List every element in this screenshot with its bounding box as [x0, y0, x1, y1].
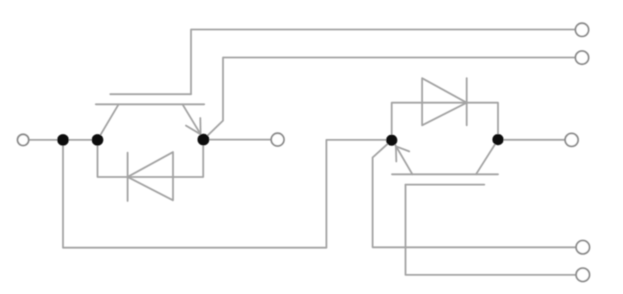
wire: auxiliary emitter E1 up and across to terminal	[203, 58, 575, 140]
IGBT Q1 body bar	[96, 103, 204, 105]
wire: bottom loop from node C1 to node E2	[63, 140, 392, 248]
junction node E1	[198, 134, 210, 146]
terminal: gate G2	[576, 268, 589, 281]
terminal: right collector output	[565, 133, 578, 146]
IGBT Q1 gate bar	[110, 93, 191, 95]
IGBT Q1 emitter arrowhead	[186, 118, 201, 134]
diode D2 cathode bar	[466, 78, 468, 125]
junction node C1	[92, 134, 104, 146]
terminal: auxiliary emitter E1	[575, 51, 588, 64]
diode D1 cathode bar	[127, 153, 129, 201]
wire: left input to node C1	[29, 139, 98, 141]
IGBT Q2 emitter lead	[395, 145, 412, 175]
junction node C2	[492, 134, 503, 145]
diode D2 triangle	[422, 78, 467, 125]
IGBT Q2 gate bar	[406, 184, 485, 186]
terminal: left collector input	[18, 134, 29, 145]
junction node E2	[386, 135, 397, 146]
junction node at left input	[57, 134, 69, 146]
IGBT Q1 emitter lead	[183, 104, 202, 136]
diode D1 triangle	[128, 152, 173, 200]
terminal: auxiliary emitter E2	[576, 241, 589, 254]
wire: emitter E1 to AC output terminal	[203, 139, 271, 141]
terminal: gate G1	[575, 23, 588, 36]
wire: gate G2 lead down and across to terminal	[406, 185, 577, 275]
wire: node C1 down to diode D1	[98, 140, 204, 177]
IGBT Q2 emitter arrowhead	[396, 146, 409, 161]
wire: auxiliary emitter E2 down and across to terminal	[373, 140, 576, 247]
wire: node C2 to right output terminal	[498, 139, 565, 141]
wire: node E2 up to diode D2	[392, 103, 498, 141]
IGBT Q2 body bar	[392, 173, 498, 175]
IGBT Q2 collector lead	[476, 140, 498, 175]
terminal: AC output (left half)	[271, 133, 284, 146]
IGBT Q1 collector lead	[98, 104, 119, 140]
wire: gate G1 lead up and across to terminal	[191, 30, 575, 95]
